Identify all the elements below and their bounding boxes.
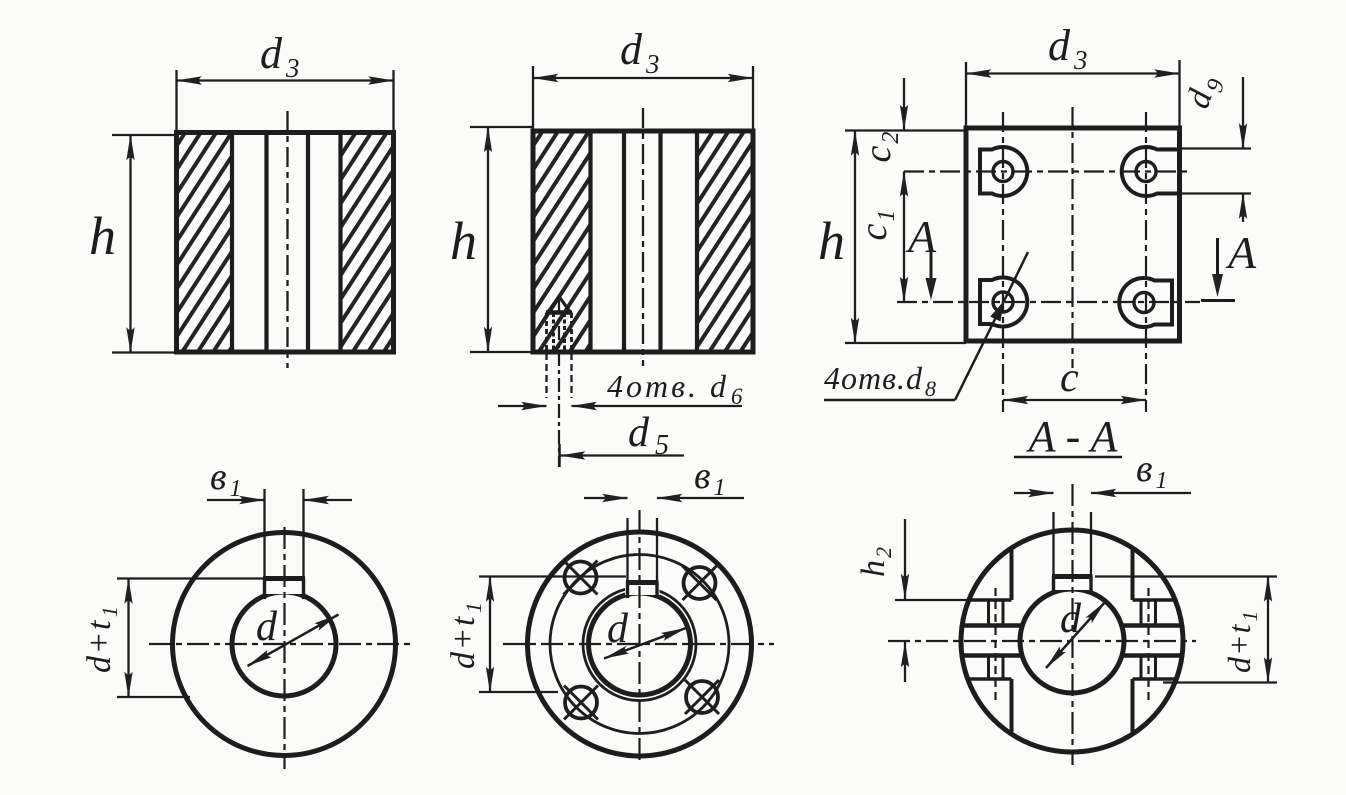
- fig1 h top extension line: [112, 134, 177, 136]
- fig2 hole left extension dashed: [545, 353, 547, 398]
- svg-text:d3: d3: [260, 29, 300, 83]
- fig2 bore left wall line: [622, 132, 626, 351]
- fig3 slotted hole bottom-right pilot circle: [1134, 293, 1154, 313]
- fig3 c1 dimension line with arrows: [903, 172, 905, 303]
- fig6 right hole wall upper a: [1140, 600, 1143, 626]
- fig5 b1 right extension line: [656, 518, 658, 582]
- fig6 left slot lower wall: [1010, 679, 1014, 732]
- fig3 hole row1 centerline: [904, 170, 1190, 172]
- fig3 hole column2 centerline: [1145, 112, 1147, 412]
- fig6 right hole wall lower b: [1154, 656, 1157, 680]
- fig6 h2 top extension line: [895, 599, 968, 601]
- fig6 outer circle: [961, 530, 1183, 752]
- fig6 left slot upper wall: [1010, 549, 1014, 600]
- fig3 section arrow A right head: [1212, 274, 1223, 297]
- fig4 outer circle: [173, 533, 396, 756]
- fig4 b1 right extension line: [302, 489, 304, 578]
- svg-text:d9: d9: [1179, 71, 1230, 115]
- fig3 4otv d8 leader overshoot: [1004, 252, 1028, 301]
- fig2 d5 end tick: [558, 444, 561, 467]
- fig5 counterbore circle: [583, 588, 696, 701]
- fig6 vertical centerline: [1071, 484, 1073, 765]
- svg-text:4отв.d8: 4отв.d8: [824, 360, 937, 401]
- svg-text:в1: в1: [210, 456, 242, 502]
- fig1 h dimension line with arrows: [129, 135, 131, 353]
- fig2 d6 dimension right arrow line: [572, 405, 743, 407]
- fig6 right slot lower edge: [1133, 677, 1177, 680]
- fig2 bore right wall line: [658, 132, 662, 351]
- fig3 d9 lower extension line: [1160, 192, 1251, 194]
- fig1 d3 left extension line: [175, 70, 177, 131]
- fig6 keyway right wall: [1089, 576, 1092, 593]
- svg-text:h: h: [450, 211, 477, 271]
- fig3 section arrow A right stem: [1216, 238, 1219, 276]
- fig2 h top extension line: [470, 126, 534, 128]
- fig4 horizontal centerline: [149, 643, 413, 645]
- fig5 outer circle: [528, 532, 752, 756]
- fig3 slotted hole bottom-left pilot circle: [993, 292, 1013, 312]
- fig3 plate outline: [966, 128, 1180, 341]
- fig1 d3 dimension line with arrows: [177, 79, 394, 81]
- fig3 section label underline: [1014, 456, 1122, 459]
- fig5 d+t1 bottom extension line: [479, 691, 558, 693]
- fig3 d9 upper extension line: [1160, 147, 1251, 149]
- fig2 tapped hole mouth bar: [546, 310, 572, 314]
- fig3 4otv d8 leader with arrow: [955, 301, 1004, 400]
- fig5 bore circle: [589, 593, 691, 695]
- svg-text:h: h: [818, 211, 845, 271]
- fig3 h top extension line: [845, 129, 966, 131]
- fig6 d+t1 top extension line: [1095, 575, 1277, 577]
- fig1 right hatch inner boundary line: [338, 134, 342, 351]
- fig6 right hole wall upper b: [1154, 600, 1157, 626]
- fig6 keyway top line: [1052, 574, 1093, 579]
- fig5 tapped hole top-left: [564, 561, 598, 595]
- fig3 section trace bar right: [1201, 299, 1235, 302]
- fig6 h2 upper arrow line: [904, 519, 906, 599]
- fig4 bore diameter line with arrows: [248, 615, 339, 667]
- fig2 vertical centerline: [642, 108, 644, 366]
- fig2 hole right extension dashed: [570, 353, 572, 398]
- fig3 vertical middle centerline: [1071, 107, 1073, 368]
- fig1 d3 right extension line: [392, 70, 394, 131]
- fig3 c dimension line with arrows: [1003, 399, 1146, 401]
- fig2 left hatch inner boundary line: [588, 132, 592, 351]
- fig3 h bottom extension line: [845, 342, 966, 344]
- fig3 slotted hole bottom-left outline: [980, 278, 1027, 327]
- fig3 d3 right extension line: [1178, 60, 1180, 127]
- fig4 d+t1 bottom extension line: [117, 696, 190, 698]
- fig6 bore diameter line with arrows: [1046, 602, 1106, 669]
- fig4 b1 left extension line: [263, 489, 265, 578]
- fig1 right hatched section band: [342, 134, 392, 351]
- fig6 d+t1 bottom extension line: [1163, 681, 1277, 683]
- fig2 tapped hole thread minor right: [563, 313, 566, 351]
- fig4 bore circle: [232, 592, 336, 696]
- fig5 keyway right wall: [655, 582, 658, 598]
- fig6 right slot upper edge: [1133, 598, 1177, 601]
- svg-text:d+t1: d+t1: [81, 605, 122, 673]
- fig6 left hole wall lower a: [987, 656, 990, 680]
- fig3 section arrow A left head: [926, 278, 937, 300]
- fig5 b1 left arrow line: [584, 497, 628, 499]
- fig2 tapped hole left hidden wall: [545, 313, 548, 351]
- fig3 h dimension line with arrows: [854, 131, 856, 344]
- fig5 keyway blank cover: [625, 576, 660, 595]
- fig2 left hatched section band: [536, 133, 589, 351]
- fig1 bore left wall line: [264, 134, 268, 351]
- fig2 d6 dimension left arrow line: [498, 405, 547, 407]
- fig6 right slot lower wall: [1131, 679, 1135, 732]
- fig5 d+t1 top extension line: [479, 575, 626, 577]
- fig6 keyway left wall: [1052, 576, 1055, 593]
- svg-text:d3: d3: [620, 25, 660, 79]
- fig4 vertical centerline: [283, 527, 285, 769]
- svg-text:c1: c1: [853, 210, 900, 241]
- fig3 section arrow A left stem: [930, 252, 933, 280]
- fig6 bore circle: [1020, 589, 1124, 693]
- fig6 right slot lower shoulder: [1121, 653, 1183, 657]
- fig1 h bottom extension line: [112, 351, 177, 353]
- fig6 right hole hidden axis: [1147, 588, 1149, 700]
- fig3 hole row2 centerline: [897, 301, 1200, 303]
- svg-text:c2: c2: [857, 132, 904, 163]
- svg-text:d+t1: d+t1: [1221, 610, 1262, 673]
- fig4 d+t1 top extension line: [117, 577, 264, 579]
- svg-text:d: d: [1060, 596, 1082, 642]
- svg-text:A: A: [1225, 227, 1257, 278]
- fig2 h bottom extension line: [470, 351, 534, 353]
- fig3 slotted hole top-right outline: [1122, 147, 1179, 196]
- svg-text:d3: d3: [1048, 21, 1088, 75]
- svg-text:в1: в1: [694, 455, 726, 501]
- fig1 left hatch inner boundary line: [230, 134, 234, 351]
- fig6 horizontal centerline: [888, 640, 1196, 642]
- fig6 right slot upper shoulder: [1121, 623, 1183, 627]
- fig3 d3 left extension line: [965, 62, 967, 127]
- fig5 tapped hole bottom-right: [685, 680, 719, 714]
- fig2 tapped hole drill point: [548, 297, 571, 313]
- svg-text:в1: в1: [1136, 448, 1168, 494]
- svg-text:d5: d5: [628, 410, 669, 461]
- fig4 keyway left wall: [263, 578, 266, 599]
- fig3 slotted hole top-left outline: [980, 147, 1027, 196]
- fig4 d+t1 dimension line with arrows: [127, 579, 129, 698]
- fig5 b1 left extension line: [626, 518, 628, 582]
- fig3 4otv d8 underline: [824, 399, 955, 402]
- fig2 right hatch inner boundary line: [695, 132, 699, 351]
- fig5 vertical centerline: [638, 510, 640, 763]
- fig6 b1 right extension line: [1090, 512, 1092, 576]
- fig6 left slot upper shoulder: [962, 623, 1024, 627]
- fig2 h dimension line with arrows: [487, 127, 489, 352]
- svg-text:c: c: [1060, 355, 1079, 401]
- fig1 bore right wall line: [306, 134, 310, 351]
- fig6 left slot lower edge: [968, 677, 1012, 680]
- fig2 right hatched section band: [699, 133, 751, 351]
- fig6 keyway blank cover: [1051, 570, 1094, 590]
- svg-text:h: h: [89, 206, 116, 266]
- fig6 left hole hidden axis: [994, 588, 996, 700]
- fig4 b1 right arrow line: [304, 499, 353, 501]
- fig3 d3 dimension line with arrows: [966, 72, 1180, 74]
- fig5 tapped hole top-right: [683, 566, 717, 600]
- fig4 keyway top line: [263, 576, 305, 581]
- fig3 hole column1 centerline: [1002, 112, 1004, 412]
- fig6 d+t1 dimension line with arrows: [1267, 577, 1269, 683]
- fig6 left slot lower shoulder: [962, 653, 1024, 657]
- fig3 d9 lower arrow line: [1242, 194, 1244, 223]
- fig5 keyway top line: [626, 580, 659, 585]
- fig3 c2 upper arrow line: [903, 78, 905, 130]
- fig3 slotted hole top-right pilot circle: [1136, 162, 1156, 182]
- fig1 left hatched section band: [178, 134, 230, 351]
- fig2 hole axis centerline: [558, 300, 560, 467]
- svg-text:A - A: A - A: [1026, 412, 1119, 461]
- fig5 bolt circle: [550, 555, 729, 734]
- fig4 keyway blank cover: [262, 572, 306, 594]
- fig1 body outline: [177, 133, 394, 353]
- fig1 vertical centerline: [286, 111, 288, 368]
- fig5 d+t1 dimension line with arrows: [489, 577, 491, 693]
- fig5 b1 right arrow line: [657, 497, 744, 499]
- svg-text:4отв. d6: 4отв. d6: [607, 368, 746, 409]
- fig5 tapped hole bottom-left: [564, 686, 598, 720]
- fig6 b1 right arrow line: [1091, 492, 1191, 494]
- fig2 d5 dimension arrow line: [560, 454, 684, 456]
- fig3 slotted hole top-left pilot circle: [993, 162, 1013, 182]
- fig6 left hole wall lower b: [1002, 656, 1005, 680]
- fig6 right hole wall lower a: [1140, 656, 1143, 680]
- fig6 left slot upper edge: [968, 598, 1012, 601]
- fig3 d9 upper arrow line: [1242, 77, 1244, 149]
- fig5 keyway left wall: [626, 582, 629, 598]
- svg-text:h2: h2: [855, 547, 896, 577]
- fig4 keyway right wall: [302, 578, 305, 599]
- fig6 left hole wall upper a: [987, 600, 990, 626]
- fig6 left hole wall upper b: [1002, 600, 1005, 626]
- fig2 tapped hole right hidden wall: [570, 313, 573, 351]
- fig2 d3 left extension line: [532, 66, 534, 130]
- fig5 bore diameter line with arrows: [604, 628, 686, 659]
- svg-text:d+t1: d+t1: [445, 601, 486, 669]
- fig6 h2 lower arrow line: [904, 642, 906, 682]
- fig2 d3 dimension line with arrows: [533, 77, 753, 79]
- fig3 slotted hole bottom-right outline: [1119, 278, 1172, 327]
- fig5 horizontal centerline: [503, 643, 774, 645]
- fig6 b1 left extension line: [1052, 512, 1054, 576]
- fig2 body outline: [533, 131, 753, 352]
- fig6 b1 left arrow line: [1014, 492, 1054, 494]
- fig6 right slot upper wall: [1131, 549, 1135, 600]
- fig2 tapped hole thread minor left: [552, 313, 555, 351]
- fig4 b1 left arrow line: [207, 499, 265, 501]
- fig2 d3 right extension line: [752, 66, 754, 130]
